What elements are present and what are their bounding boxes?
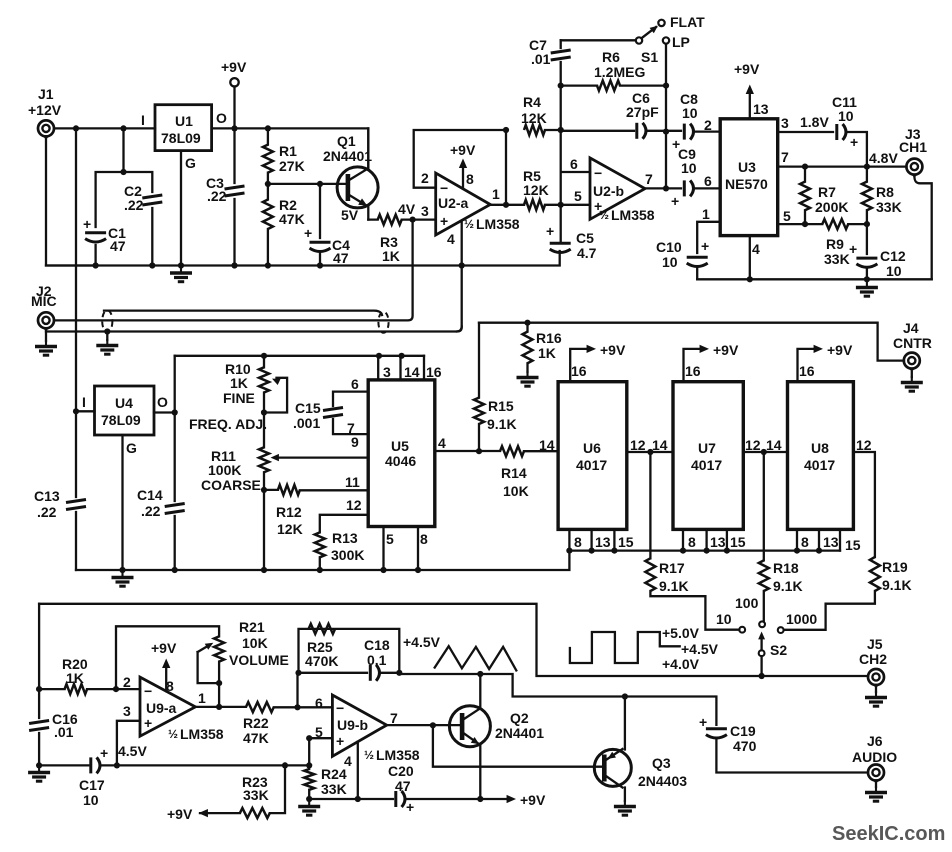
wire input drop to C16/R20 [38,604,40,766]
connector J5 CH2 [868,669,884,689]
svg-text:C17: C17 [79,777,105,793]
wire C2 branch loop [96,128,153,265]
svg-text:R16: R16 [536,330,562,346]
svg-text:+: + [83,216,91,232]
ground below U4 [112,571,134,586]
svg-text:R1: R1 [279,143,297,159]
switch S1 [561,39,636,41]
svg-text:33K: 33K [876,199,902,215]
wire U4 ground pin [121,435,123,570]
capacitor C12 [866,224,868,279]
switch S2 contact 1000 [778,627,784,633]
wire J1 sleeve down to ground rail [46,139,96,266]
svg-text:47K: 47K [243,730,269,746]
svg-text:U4: U4 [115,395,133,411]
ground below J5 [875,688,877,692]
regulator U1 78L09 [155,105,212,151]
resistor R20 [39,688,140,690]
ground below R16 [517,371,539,386]
svg-text:R21: R21 [239,619,265,635]
svg-text:8: 8 [420,531,428,547]
resistor R25 [309,624,335,634]
wire U2-b output to C9/U3 pin6 [645,187,720,189]
switch S2 wiper [759,650,765,656]
svg-text:10: 10 [681,160,697,176]
svg-text:6: 6 [315,695,323,711]
svg-text:33K: 33K [243,787,269,803]
ground rail (U3 section) [697,278,932,280]
svg-text:−: − [336,700,344,716]
svg-text:8: 8 [801,534,809,550]
svg-text:C10: C10 [656,239,682,255]
resistor R4 [524,125,545,135]
svg-text:−: − [440,180,448,196]
svg-text:I: I [82,394,86,410]
wire U1 output rail [212,128,369,168]
svg-text:4017: 4017 [576,457,607,473]
resistor R6 [561,84,666,86]
svg-text:8: 8 [574,534,582,550]
connector J1 [38,120,54,140]
square wave symbol [570,632,680,663]
svg-text:NE570: NE570 [725,176,768,192]
svg-text:1K: 1K [66,670,84,686]
capacitor C6 [637,123,646,139]
svg-text:AUDIO: AUDIO [852,749,897,765]
svg-text:16: 16 [426,364,442,380]
capacitor C14 [165,504,185,514]
svg-text:4: 4 [438,435,446,451]
capacitor C20 [396,791,405,807]
svg-text:10K: 10K [242,635,268,651]
wire U5 top pin stubs 3,14,16 [378,356,424,380]
svg-text:R4: R4 [523,94,541,110]
svg-text:.01: .01 [531,51,551,67]
wire Q1 base [268,183,345,185]
svg-text:1: 1 [702,206,710,222]
svg-text:1.2MEG: 1.2MEG [594,64,645,80]
svg-text:12K: 12K [523,182,549,198]
svg-text:+: + [699,714,707,730]
+9V arrow U7 pin16 [684,349,706,382]
svg-text:4: 4 [752,241,760,257]
op-amp U9-a [140,677,195,736]
capacitor C10 [687,257,708,266]
svg-text:R9: R9 [826,236,844,252]
svg-text:+5.0V: +5.0V [662,625,700,641]
svg-text:+: + [850,134,858,150]
svg-text:LM358: LM358 [180,726,224,742]
svg-text:15: 15 [618,534,634,550]
capacitor C18 [370,665,379,681]
svg-text:LM358: LM358 [376,747,420,763]
wire mic cable inner conductor [54,220,413,320]
svg-text:C12: C12 [880,248,906,264]
svg-text:+9V: +9V [734,61,760,77]
wire C14 column (rail riser) [174,356,176,570]
svg-text:U1: U1 [175,113,193,129]
svg-text:4.5V: 4.5V [118,743,147,759]
svg-text:33K: 33K [824,251,850,267]
wire U9-b output to Q2/Q3 [387,724,460,726]
wire U5 bottom pin stubs 5,8 [384,527,419,571]
svg-text:+9V: +9V [450,142,476,158]
svg-text:1K: 1K [538,345,556,361]
IC U6 4017 [558,382,627,530]
wire C19 to J6 [716,740,868,773]
wire U3 pin5 / resistor R9 [778,223,867,225]
transistor Q1 2N4401 [337,167,378,208]
capacitor C17 [91,757,100,773]
wire J1 to U1 input rail [54,127,155,129]
resistor R12 [264,489,368,492]
transistor Q3 2N4403 [594,749,631,786]
svg-text:+: + [849,241,857,257]
wire U3 pin4 [749,236,751,280]
carrier rail to J4 [479,323,904,361]
triangle wave symbol [435,646,517,670]
svg-text:J5: J5 [867,636,883,652]
svg-text:6: 6 [570,156,578,172]
svg-text:R7: R7 [818,184,836,200]
svg-text:½: ½ [364,748,374,762]
svg-text:U9-a: U9-a [146,700,177,716]
svg-text:.01: .01 [54,724,74,740]
svg-text:Q3: Q3 [652,755,671,771]
wire U8 pin12 to R19 [853,452,875,557]
capacitor C7 [551,50,571,60]
svg-text:C19: C19 [730,723,756,739]
svg-text:+: + [406,799,414,815]
wire R10 wiper loop [264,378,287,413]
+9V arrow U3 pin13 [749,89,751,119]
resistor R14 [500,446,524,456]
svg-text:100K: 100K [208,462,241,478]
svg-text:3: 3 [383,364,391,380]
wire bias 4.5V line [39,764,309,766]
svg-text:10: 10 [886,263,902,279]
potentiometer R11 100K COARSE [259,447,269,472]
svg-text:+4.5V: +4.5V [681,641,719,657]
svg-text:6: 6 [704,173,712,189]
wire J3 sleeve to ground rail [914,177,931,279]
svg-text:C14: C14 [137,487,163,503]
wire U2-a pin2 feedback [414,130,506,188]
svg-text:+9V: +9V [151,640,177,656]
svg-text:14: 14 [539,437,555,453]
capacitor C11 [837,124,846,140]
wire feedback column (C7/R6/R4/pin6/R5/C5 node) [561,40,590,242]
wire S1 LP column [665,44,667,189]
feedback loop R25/C18 [298,629,400,707]
svg-text:3: 3 [781,115,789,131]
svg-text:15: 15 [730,534,746,550]
svg-text:FINE: FINE [223,390,255,406]
svg-text:16: 16 [571,363,587,379]
ground below C12 [856,281,878,296]
svg-text:1.8V: 1.8V [800,114,829,130]
svg-text:13: 13 [753,101,769,117]
connector J2 MIC [38,312,54,332]
op-amp U2-a [436,173,491,235]
svg-text:8: 8 [466,171,474,187]
svg-text:1000: 1000 [786,611,817,627]
wire U9-a pin3 to bias [117,721,140,766]
svg-text:+4.5V: +4.5V [403,634,441,650]
svg-text:2: 2 [421,170,429,186]
svg-text:+9V: +9V [520,792,546,808]
svg-text:2: 2 [704,117,712,133]
svg-text:J6: J6 [867,733,883,749]
ground at cable shield [106,332,108,341]
svg-text:J1: J1 [38,86,54,102]
svg-text:R12: R12 [276,504,302,520]
svg-text:R19: R19 [882,559,908,575]
svg-text:J4: J4 [903,320,919,336]
svg-text:470K: 470K [305,653,338,669]
shield ellipse right [378,312,388,333]
svg-text:33K: 33K [321,781,347,797]
ground below U1 [170,267,192,282]
svg-text:14: 14 [404,364,420,380]
svg-text:U6: U6 [583,440,601,456]
capacitor C19 [706,729,727,738]
svg-text:9.1K: 9.1K [487,416,517,432]
svg-text:CNTR: CNTR [893,335,932,351]
svg-text:+12V: +12V [28,102,62,118]
svg-text:7: 7 [781,149,789,165]
svg-text:+: + [671,193,679,209]
svg-text:R8: R8 [876,184,894,200]
svg-text:470: 470 [733,738,757,754]
wire U5 pin9 with wiper arrow [277,456,368,458]
wire U6 pin12 to U7 pin14 [627,451,673,453]
svg-text:12: 12 [745,437,761,453]
svg-text:VOLUME: VOLUME [229,652,289,668]
capacitor C8 [684,124,693,140]
svg-text:47: 47 [333,250,349,266]
shield ellipse left [102,310,112,332]
svg-text:LM358: LM358 [476,216,520,232]
capacitor C13 [66,500,86,510]
ground below J4 [911,372,913,377]
svg-text:5: 5 [574,188,582,204]
svg-text:4.8V: 4.8V [869,150,898,166]
svg-text:13: 13 [823,534,839,550]
wire U1 ground pin [180,151,182,266]
wire U6 bottom pins 8,13,15 [569,529,614,550]
svg-text:R14: R14 [501,465,527,481]
svg-text:4: 4 [447,231,455,247]
svg-text:47: 47 [395,778,411,794]
svg-text:2N4401: 2N4401 [323,148,372,164]
svg-text:1K: 1K [382,248,400,264]
svg-text:R6: R6 [602,49,620,65]
svg-text:−: − [594,165,602,181]
svg-text:78L09: 78L09 [101,412,141,428]
resistor R2 [267,184,269,266]
svg-text:+: + [100,745,108,761]
+9V arrow U9-a [165,663,167,691]
capacitor C4 [310,242,331,251]
svg-text:+: + [336,733,344,749]
svg-text:FREQ. ADJ.: FREQ. ADJ. [189,416,267,432]
svg-text:47K: 47K [279,211,305,227]
ground below R24 [306,796,312,802]
svg-text:U2-b: U2-b [593,183,624,199]
svg-text:1: 1 [198,690,206,706]
svg-text:16: 16 [685,363,701,379]
op-amp U2-b [590,158,645,219]
svg-text:10: 10 [716,611,732,627]
svg-text:11: 11 [345,474,360,490]
svg-text:+9V: +9V [713,342,739,358]
wire U3 pin1 to C10 [697,222,720,279]
svg-text:16: 16 [799,363,815,379]
wire U9-a output / resistor R22 [195,706,332,709]
+9V arrow U6 pin16 [570,349,592,382]
svg-text:½: ½ [464,217,474,231]
capacitor C16 [29,721,49,731]
IC U7 4017 [673,382,743,530]
svg-text:13: 13 [595,534,611,550]
svg-text:3: 3 [123,703,131,719]
wire collector rail / triangle wave net [399,674,716,725]
svg-text:Q2: Q2 [510,710,529,726]
svg-text:SeekIC.com: SeekIC.com [832,823,945,845]
wire U9-a feedback loop [116,626,219,689]
svg-text:4017: 4017 [691,457,722,473]
ground below J6 [875,784,877,788]
svg-text:R17: R17 [659,560,685,576]
svg-text:5: 5 [386,531,394,547]
svg-text:U9-b: U9-b [337,717,368,733]
resistor R23 / +9V arrow [199,809,208,817]
svg-text:MIC: MIC [31,293,57,309]
wire U7 bottom pins 8,13,15 [683,529,727,550]
connector J3 CH1 [906,159,922,179]
switch S2 contact 100 [759,621,765,627]
svg-text:U5: U5 [391,438,409,454]
resistor R15 [478,323,480,452]
svg-text:+: + [701,238,709,254]
wire Q3 base [433,725,604,766]
svg-text:9.1K: 9.1K [882,577,912,593]
svg-text:FLAT: FLAT [670,14,705,30]
wire U2-a pin4 to ground rail and mic shield [457,222,462,332]
svg-text:R18: R18 [773,560,799,576]
svg-text:12: 12 [856,437,872,453]
capacitor C5 [550,243,571,252]
resistor R16 [526,323,528,372]
resistor R8 [866,167,868,225]
capacitor C3 [225,186,245,196]
svg-text:300K: 300K [331,547,364,563]
svg-text:1K: 1K [230,375,248,391]
svg-text:5: 5 [783,208,791,224]
svg-text:+: + [440,213,448,229]
svg-text:.22: .22 [141,503,161,519]
potentiometer R10 1K FINE [263,356,265,448]
svg-text:2: 2 [123,674,131,690]
svg-text:C18: C18 [364,637,390,653]
wire J2 sleeve to ground [45,332,47,342]
regulator U4 78L09 [95,386,155,435]
resistor R7 [804,167,806,225]
svg-text:10: 10 [662,254,678,270]
wire U3 pin7 to J3 [778,165,907,167]
svg-text:+4.0V: +4.0V [662,656,700,672]
svg-text:C15: C15 [295,400,321,416]
svg-text:1: 1 [492,186,500,202]
svg-text:.001: .001 [293,415,320,431]
wire U4 input [76,410,95,412]
svg-text:+: + [546,223,554,239]
svg-text:+9V: +9V [827,342,853,358]
wire U9-b pin5 node / resistor R24 [309,738,332,799]
svg-text:C20: C20 [388,763,414,779]
svg-text:9: 9 [351,434,359,450]
svg-text:0.1: 0.1 [367,652,387,668]
svg-text:12K: 12K [277,521,303,537]
svg-text:C5: C5 [576,230,594,246]
svg-text:Q1: Q1 [337,133,356,149]
svg-text:9.1K: 9.1K [773,578,803,594]
ground below Q3 [614,800,636,815]
svg-text:.22: .22 [124,197,144,213]
svg-text:7: 7 [645,171,653,187]
svg-text:+: + [304,225,312,241]
resistor R18 [763,452,765,621]
svg-text:13: 13 [710,534,726,550]
wire C4 branch [319,184,321,266]
resistor R5 [524,200,545,210]
svg-text:200K: 200K [815,199,848,215]
node +9V terminal [230,78,238,86]
svg-text:−: − [144,683,152,699]
wire R21 wiper loop [198,645,220,683]
wire U2-a output node [490,130,524,205]
wire U5 pin4 output [435,450,500,452]
resistor R19 [870,557,880,591]
svg-text:4046: 4046 [385,453,416,469]
resistor R17 [650,452,739,630]
wire C3 branch [233,128,235,265]
svg-text:7: 7 [390,710,398,726]
potentiometer R21 10K VOLUME [214,636,224,661]
svg-text:R13: R13 [332,530,358,546]
svg-text:O: O [216,110,227,126]
capacitor C1 [85,233,106,242]
wire mic cable sleeve line [46,327,462,332]
svg-text:10: 10 [682,105,698,121]
svg-text:+9V: +9V [600,342,626,358]
svg-text:.22: .22 [207,188,227,204]
VCO ground rail [76,551,569,570]
capacitor C15 loop U5 pins 6-7 [333,392,368,435]
svg-text:+9V: +9V [221,59,247,75]
+9V arrow U8 pin16 [798,349,820,382]
svg-text:U3: U3 [738,159,756,175]
svg-text:78L09: 78L09 [161,130,201,146]
resistor R1 [267,128,269,184]
svg-text:CH2: CH2 [859,651,887,667]
+9V arrow U2-a [462,163,464,189]
transistor Q2 2N4401 [449,706,490,747]
svg-text:14: 14 [766,437,782,453]
IC U3 NE570 [720,119,778,236]
wire U4 output to C14 node [154,411,175,413]
